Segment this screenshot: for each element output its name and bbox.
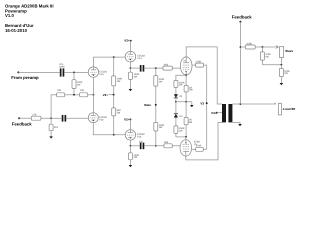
svg-text:16-01-2010: 16-01-2010 (5, 28, 28, 33)
wire cap to grid (64, 71, 88, 73)
svg-text:V2a: V2a (99, 73, 104, 76)
svg-text:V4+: V4+ (211, 111, 217, 115)
pentode U6 lower (180, 137, 200, 156)
transformer T1 secondary (228, 104, 232, 122)
capacitor C2 feedback (62, 115, 66, 122)
wire rail down branch (50, 95, 52, 124)
wire C2 to U2 grid (66, 117, 88, 119)
resistor R9 grid stopper upper (163, 64, 172, 71)
resistor R12 grid stopper lower (164, 141, 172, 148)
diode D1 (174, 87, 183, 98)
node grid junction (73, 72, 75, 74)
node fb junction (50, 117, 52, 119)
svg-text:10K: 10K (57, 89, 62, 92)
node rail column junction (93, 94, 95, 96)
resistor R1 grid leak (72, 80, 83, 89)
ground slave (280, 77, 284, 86)
wire V3 line (206, 65, 208, 149)
wire U4 cathode (129, 140, 131, 146)
resistor R6 fb divider (49, 124, 59, 130)
svg-text:2K2: 2K2 (54, 126, 59, 129)
svg-text:5K6: 5K6 (164, 64, 169, 67)
speaker jack J1 (278, 103, 296, 115)
capacitor C3 upper (140, 65, 145, 72)
wire U6 anode to OT (186, 122, 222, 159)
node V4+ (211, 111, 222, 115)
wire secondary bottom (232, 122, 240, 124)
svg-text:Feedback: Feedback (12, 121, 32, 126)
wire fb to junction (41, 117, 61, 119)
resistor R21 slave lower (279, 65, 290, 77)
node Bias (144, 103, 156, 107)
ground fb (49, 131, 53, 139)
svg-text:470R: 470R (195, 61, 201, 64)
svg-text:5K6: 5K6 (164, 141, 169, 144)
wire secondary top (232, 103, 275, 105)
node feedback input (12, 117, 32, 126)
wire sense mid (176, 101, 192, 103)
transformer T1 primary (222, 104, 226, 122)
node fb resistor junction (240, 46, 242, 48)
capacitor C1 (59, 63, 65, 77)
svg-text:470R: 470R (196, 145, 202, 148)
diode D2 (174, 102, 183, 118)
wire rail (51, 94, 56, 96)
wiper arrow (276, 46, 278, 49)
resistor R3 rail left (57, 89, 65, 97)
resistor R19 presence feed (240, 42, 275, 49)
svg-text:V1.0: V1.0 (5, 13, 14, 18)
svg-text:V3: V3 (200, 101, 204, 105)
svg-text:Slave: Slave (285, 49, 293, 53)
svg-text:V2+: V2+ (124, 39, 130, 43)
node pot bottom junction (281, 64, 283, 66)
resistor R18 screen lower (192, 145, 207, 152)
resistor R11 cathode U4 (128, 146, 139, 160)
svg-text:From preamp: From preamp (11, 75, 39, 80)
svg-text:V1b: V1b (137, 136, 142, 139)
wire rail to column (88, 94, 94, 96)
node lower junction (113, 134, 115, 136)
node V2+ top (124, 39, 131, 52)
node Feedback top (232, 15, 252, 23)
jack tick (275, 103, 276, 104)
triode U4 (125, 130, 145, 140)
wire left branch to center lower (176, 136, 186, 138)
resistor R14 sense left upper (174, 80, 185, 87)
wire feedback line (239, 22, 241, 104)
wire rail mid (65, 94, 80, 96)
resistor R15 sense center upper (184, 75, 193, 102)
wire C4 to stopper (144, 145, 164, 147)
node anode junction (113, 56, 115, 58)
node secondary feedback junction (240, 103, 242, 105)
wire divider bottom (262, 57, 281, 64)
triode U2 (88, 113, 107, 123)
resistor R20 divider (260, 47, 271, 65)
svg-text:V2+: V2+ (103, 93, 109, 97)
resistor R4 rail right (80, 89, 88, 97)
wire U5 anode to OT (186, 47, 222, 104)
node bias bottom junction (155, 145, 157, 147)
svg-text:V1a: V1a (137, 57, 142, 60)
node From preamp (11, 71, 39, 79)
resistor R17 sense center lower (184, 102, 193, 137)
ground secondary (238, 124, 242, 126)
svg-text:Feedback: Feedback (232, 15, 252, 20)
wire U1 anode up (94, 57, 126, 67)
svg-text:100K: 100K (246, 42, 252, 45)
resistor R7 plate load lower (112, 95, 122, 135)
svg-text:27K: 27K (32, 114, 37, 117)
wire junction down (73, 72, 75, 79)
resistor R2 plate load upper (112, 57, 123, 95)
node V2+ lower (124, 117, 131, 129)
wire U1 cathode column (93, 77, 95, 95)
triode U1 (88, 67, 108, 77)
wire U2 cathode down (93, 123, 125, 135)
capacitor C4 lower (139, 140, 144, 149)
svg-text:10K: 10K (80, 89, 85, 92)
svg-text:630V: 630V (59, 65, 65, 68)
ground U4 cathode (129, 160, 133, 167)
wire U3 cathode (129, 62, 131, 68)
triode U3 (125, 51, 146, 62)
wire cathode left branch (176, 75, 186, 80)
node divider junction (262, 46, 264, 48)
wire D1 to mid (175, 98, 177, 102)
ground sense (190, 102, 194, 107)
svg-text:Bias: Bias (144, 103, 151, 107)
potentiometer Slave (279, 47, 293, 58)
resistor R10 bias lower (154, 122, 165, 145)
node U5 cathode junction (185, 74, 187, 76)
wire stopper to tube (172, 67, 180, 69)
svg-text:V2+: V2+ (124, 117, 130, 121)
wire C3 to stopper (144, 67, 163, 69)
node sense mid left (175, 101, 177, 103)
resistor R16 sense left lower (174, 118, 185, 137)
node rail gridleak junction (73, 94, 75, 96)
resistor R8 cathode U3 (128, 68, 139, 79)
ground U3 cathode (129, 79, 133, 91)
node sense mid center (185, 101, 187, 103)
resistor R5 feedback (31, 114, 41, 121)
pentode U5 upper (180, 57, 192, 75)
node bias top junction (155, 67, 157, 69)
node V3 (200, 101, 207, 105)
wire stopper to tube lower (172, 145, 180, 147)
node V2+ tap (103, 93, 115, 97)
node U6 cathode junction (185, 136, 187, 138)
wire input (18, 71, 59, 73)
resistor R13 screen upper (192, 61, 207, 68)
bias line (154, 68, 165, 122)
svg-text:4 and 8R: 4 and 8R (283, 107, 296, 111)
svg-text:V2b: V2b (99, 118, 104, 121)
wire R1 to rail (73, 89, 75, 95)
wire fb in (19, 117, 31, 119)
